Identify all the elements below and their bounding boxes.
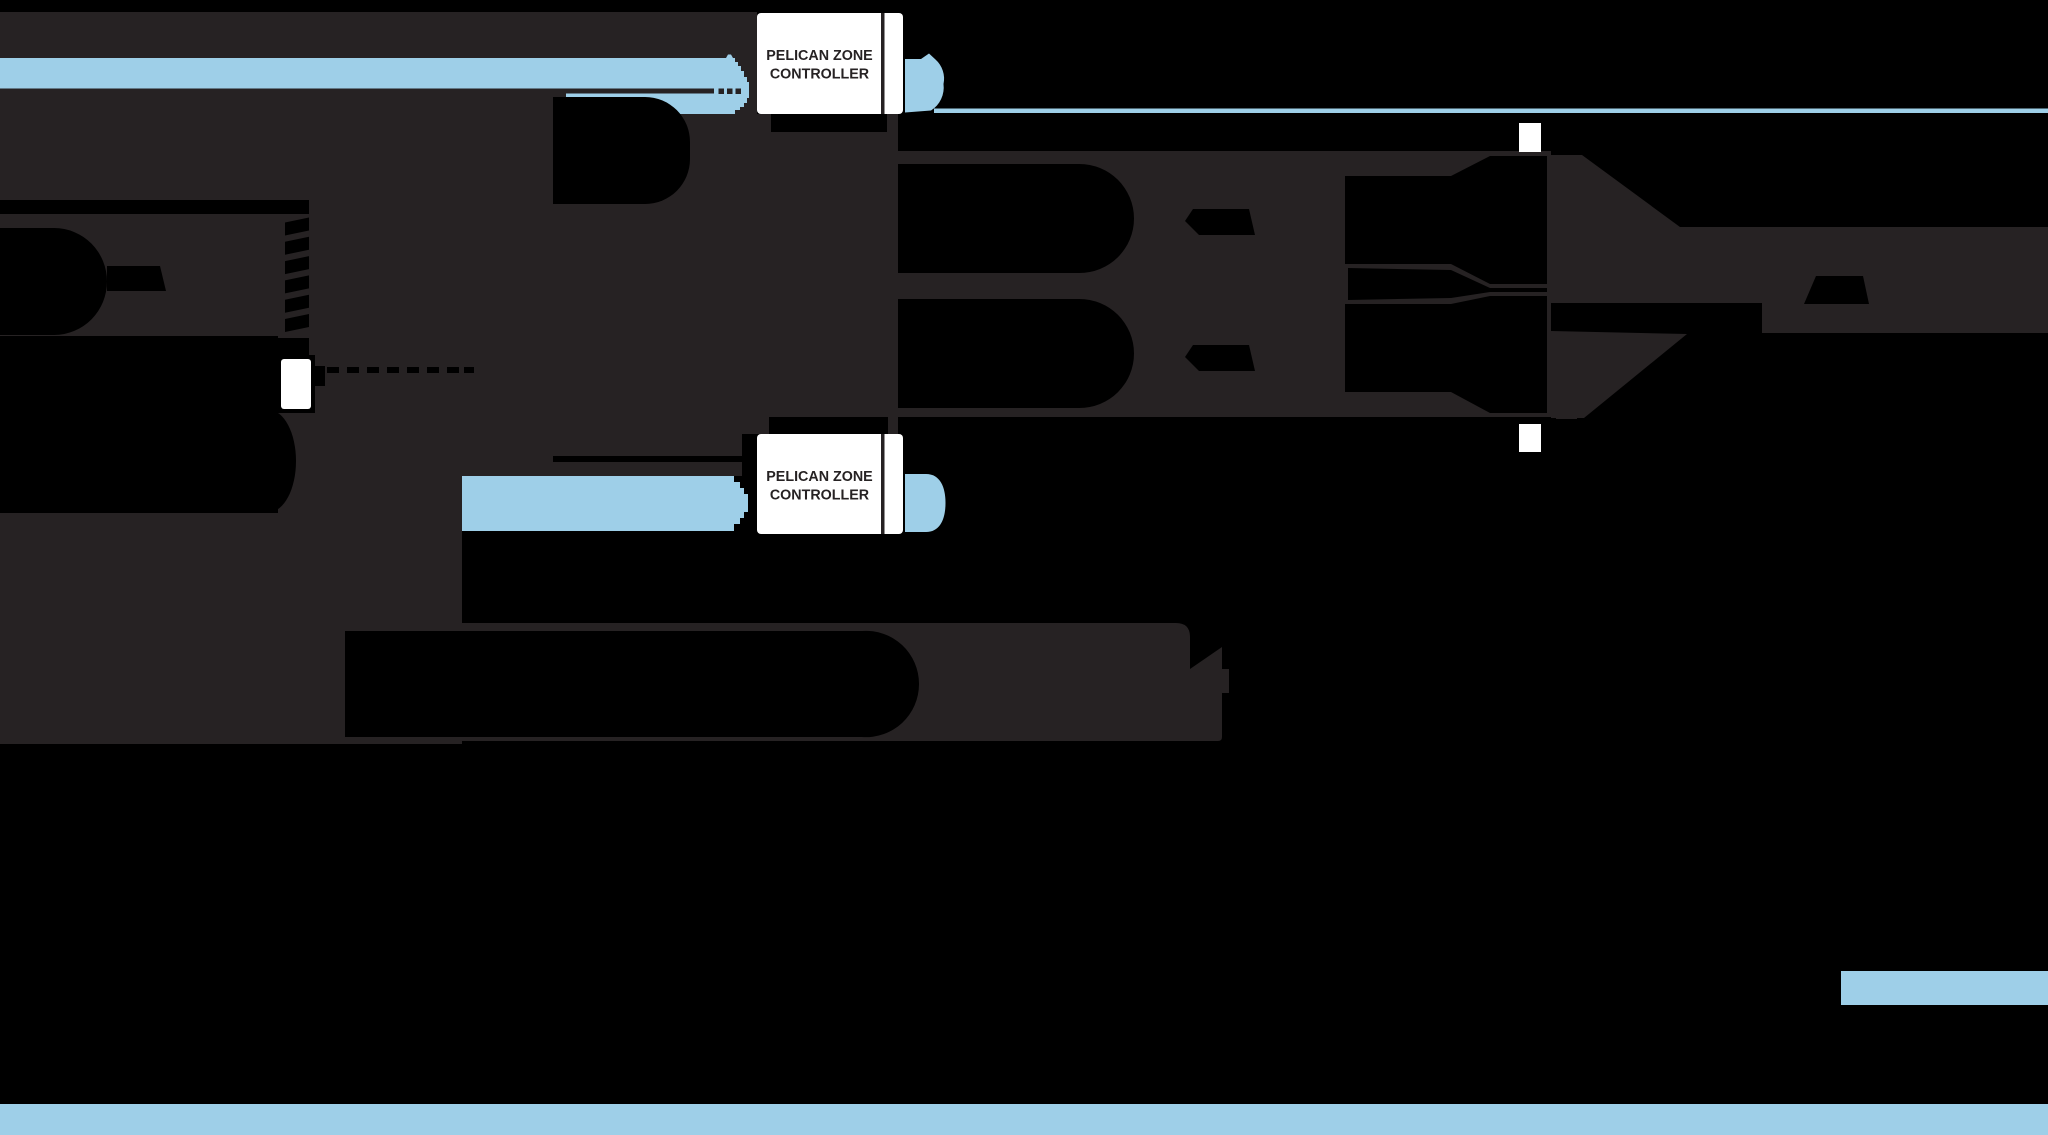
plenum middle wedge [1348, 268, 1547, 300]
airflow arrow 2 (partially hidden behind duct) [566, 94, 749, 115]
fan section bottom wall [0, 338, 309, 355]
duct: bottom return band with arrow tail [462, 623, 1229, 741]
plenum upper funnel [1345, 156, 1547, 284]
zone controller 1 [757, 13, 903, 114]
bottom airflow strip [0, 1104, 2048, 1135]
wireless thin line [934, 109, 2048, 114]
zone damper lower [1185, 345, 1255, 371]
duct: wall above arrow 3 [462, 434, 742, 476]
mount strip under controller 1 [771, 114, 887, 132]
duct: top-left return duct field [0, 12, 757, 200]
plenum lower funnel [1345, 296, 1547, 413]
duct: center plenum field [462, 200, 898, 434]
economizer louvers [285, 218, 309, 236]
duct: RTU fan section [0, 213, 310, 336]
housing right bulge [242, 410, 296, 512]
RTU lower black housing [0, 355, 278, 513]
duct: right lower converging wedge [1551, 331, 1687, 418]
svg-text:PELICAN ZONE: PELICAN ZONE [766, 469, 872, 485]
right duct damper [1804, 276, 1869, 304]
zone damper upper [1185, 209, 1255, 235]
wire dash over arrow tip [719, 89, 742, 95]
duct tick mark [1556, 414, 1577, 419]
duct: panel under controller 1 [757, 114, 898, 200]
supply duct lower branch [898, 299, 1134, 408]
mount strip above controller 2 [769, 417, 888, 436]
duct wall line above arrow 3 [553, 456, 742, 462]
supply fan [0, 228, 107, 335]
duct: RTU right column [278, 200, 462, 744]
bottom return duct [345, 631, 919, 737]
black shapes over gray artwork [0, 97, 1869, 737]
dashed wire [327, 367, 339, 373]
duct sensor A [1519, 123, 1541, 152]
airflow arrow 3 [462, 476, 748, 531]
thermostat body [281, 359, 311, 409]
thermostat connector [311, 366, 325, 386]
supply duct upper branch [898, 164, 1134, 273]
airflow arrow joint [714, 89, 749, 95]
duct sensor B [1519, 424, 1541, 452]
duct: RTU lower-left body [0, 511, 278, 744]
duct: main supply band [898, 151, 1551, 417]
airflow arrow 1 [0, 55, 749, 89]
fan motor stub [107, 266, 166, 291]
bottom right airflow bar [1841, 971, 2048, 1005]
zone controller 2 [757, 434, 903, 534]
fan section top wall [0, 200, 309, 214]
svg-text:PELICAN ZONE: PELICAN ZONE [766, 48, 872, 64]
wireless arrow cap 2 [905, 474, 946, 532]
svg-text:CONTROLLER: CONTROLLER [770, 487, 870, 503]
duct: right expanding supply run [1551, 155, 2048, 333]
svg-text:CONTROLLER: CONTROLLER [770, 66, 870, 82]
thermostat frame [277, 355, 315, 413]
center riser duct [553, 97, 690, 204]
wireless arrow cap 1 [905, 54, 944, 113]
